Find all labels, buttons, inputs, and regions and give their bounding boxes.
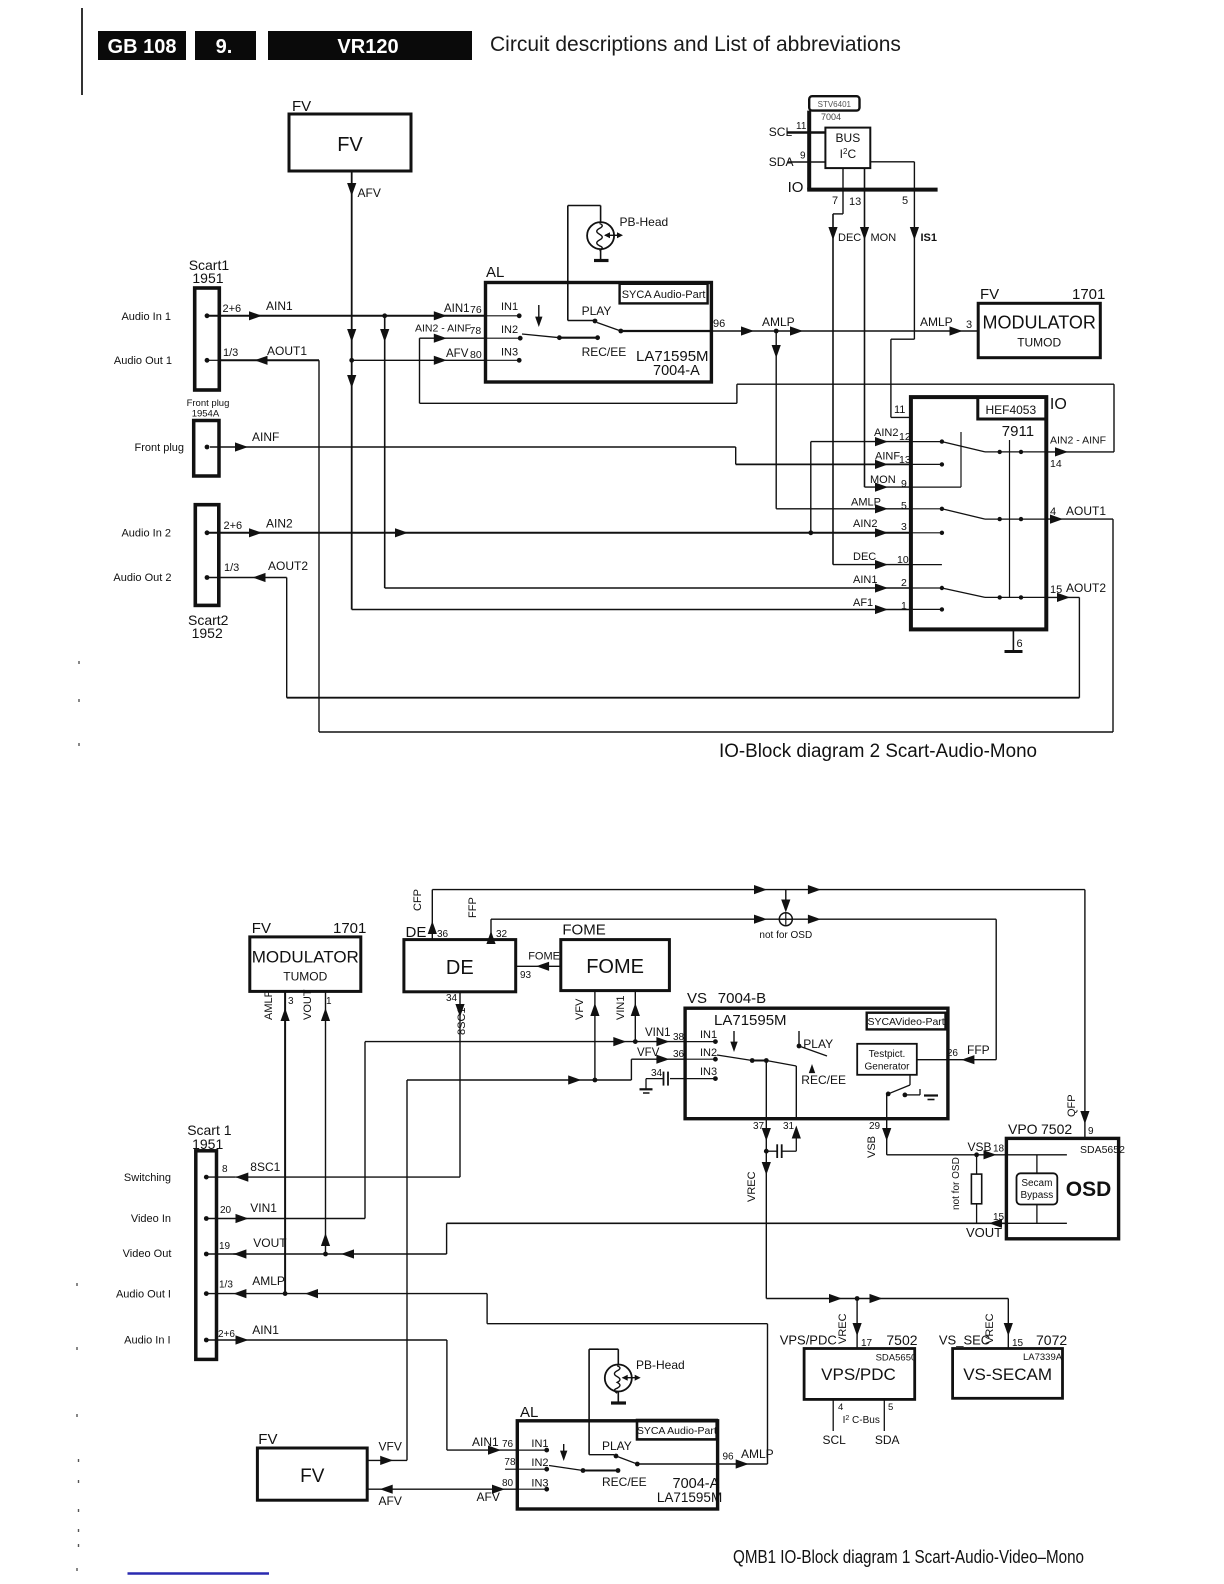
svg-text:3: 3 [288, 996, 294, 1007]
svg-text:4: 4 [838, 1402, 843, 1413]
svg-text:AMLP: AMLP [762, 315, 795, 329]
svg-text:38: 38 [673, 1032, 685, 1043]
svg-text:PB-Head: PB-Head [620, 215, 669, 229]
svg-text:AMLP: AMLP [920, 315, 953, 329]
svg-text:AIN1: AIN1 [472, 1435, 499, 1449]
svg-text:SYCA Audio-Part: SYCA Audio-Part [637, 1425, 717, 1437]
svg-text:Front plug: Front plug [187, 398, 230, 409]
svg-text:Video Out: Video Out [123, 1248, 172, 1260]
svg-text:Audio Out 1: Audio Out 1 [114, 355, 172, 367]
svg-text:34: 34 [446, 993, 458, 1004]
svg-text:Front plug: Front plug [134, 442, 184, 454]
svg-text:IN1: IN1 [700, 1029, 717, 1041]
svg-text:IO-Block diagram 2 Scart-Audio: IO-Block diagram 2 Scart-Audio-Mono [719, 741, 1037, 762]
svg-text:VS_SEC: VS_SEC [939, 1333, 990, 1348]
svg-text:31: 31 [783, 1121, 795, 1132]
svg-text:VPO: VPO [1008, 1121, 1038, 1137]
svg-text:VSB: VSB [866, 1136, 878, 1158]
svg-text:MON: MON [871, 232, 897, 244]
svg-text:SDA5650: SDA5650 [876, 1353, 917, 1364]
svg-text:5: 5 [901, 500, 907, 512]
svg-text:MODULATOR: MODULATOR [252, 948, 359, 967]
svg-text:REC/EE: REC/EE [602, 1475, 647, 1489]
svg-text:Circuit descriptions and List: Circuit descriptions and List of abbrevi… [490, 33, 901, 56]
svg-text:AIN2 - AINF: AIN2 - AINF [415, 323, 471, 335]
svg-text:HEF4053: HEF4053 [985, 403, 1036, 417]
svg-text:1951: 1951 [192, 1136, 223, 1152]
svg-text:8SC1: 8SC1 [250, 1160, 280, 1174]
svg-text:DEC: DEC [838, 232, 861, 244]
svg-text:FV: FV [292, 98, 311, 115]
svg-text:VR120: VR120 [337, 36, 398, 58]
svg-text:1951: 1951 [192, 270, 223, 286]
svg-text:Audio In I: Audio In I [124, 1335, 170, 1347]
svg-text:29: 29 [869, 1121, 881, 1132]
svg-text:9: 9 [800, 151, 806, 162]
svg-text:2+6: 2+6 [218, 1329, 235, 1340]
svg-text:AIN1: AIN1 [853, 574, 877, 586]
svg-text:13: 13 [899, 454, 911, 466]
svg-text:FV: FV [300, 1466, 325, 1487]
svg-text:Audio In 1: Audio In 1 [121, 311, 171, 323]
svg-text:1954A: 1954A [192, 409, 220, 420]
svg-text:AMLP: AMLP [263, 990, 275, 1020]
svg-text:AOUT2: AOUT2 [1066, 581, 1106, 595]
svg-text:AFV: AFV [477, 1490, 500, 1504]
svg-text:76: 76 [470, 304, 482, 316]
svg-text:8SC1: 8SC1 [456, 1007, 468, 1035]
svg-text:VIN1: VIN1 [615, 996, 627, 1020]
svg-text:VFV: VFV [574, 998, 586, 1020]
svg-text:5: 5 [902, 195, 908, 207]
svg-text:7502: 7502 [1041, 1121, 1072, 1137]
svg-text:FV: FV [252, 920, 271, 937]
svg-text:FV: FV [258, 1431, 277, 1448]
svg-text:MODULATOR: MODULATOR [983, 313, 1096, 333]
svg-text:PLAY: PLAY [582, 304, 612, 318]
svg-text:8: 8 [222, 1164, 228, 1175]
svg-text:VFV: VFV [379, 1440, 402, 1454]
svg-text:11: 11 [894, 404, 905, 416]
svg-text:VOUT: VOUT [302, 989, 314, 1020]
svg-text:Audio Out 2: Audio Out 2 [113, 572, 171, 584]
svg-text:1/3: 1/3 [224, 562, 239, 574]
svg-text:15: 15 [993, 1212, 1005, 1223]
svg-text:AOUT1: AOUT1 [267, 344, 307, 358]
svg-text:FV: FV [337, 134, 363, 156]
svg-text:AIN1: AIN1 [252, 1323, 279, 1337]
svg-text:1952: 1952 [192, 625, 223, 641]
svg-text:IS1: IS1 [921, 232, 938, 244]
svg-text:10: 10 [897, 554, 909, 566]
svg-text:2+6: 2+6 [223, 303, 242, 315]
svg-text:VSB: VSB [968, 1140, 992, 1154]
svg-text:REC/EE: REC/EE [801, 1073, 846, 1087]
svg-text:7: 7 [832, 195, 838, 207]
svg-text:7004: 7004 [821, 112, 841, 122]
svg-text:1701: 1701 [333, 920, 366, 937]
svg-text:FFP: FFP [467, 897, 479, 918]
svg-text:1701: 1701 [1072, 286, 1105, 303]
svg-text:AFV: AFV [446, 348, 469, 360]
svg-text:AIN2: AIN2 [853, 518, 877, 530]
svg-text:2: 2 [901, 577, 907, 589]
svg-text:VREC: VREC [746, 1171, 758, 1202]
svg-text:DEC: DEC [853, 551, 876, 563]
svg-text:96: 96 [713, 318, 725, 330]
svg-text:9: 9 [1088, 1126, 1094, 1137]
svg-text:1: 1 [326, 996, 332, 1007]
svg-text:Secam: Secam [1021, 1178, 1052, 1189]
svg-text:78: 78 [470, 325, 482, 337]
svg-text:93: 93 [520, 970, 532, 981]
svg-text:DE: DE [446, 957, 474, 979]
svg-text:AINF: AINF [252, 430, 279, 444]
svg-text:14: 14 [1050, 458, 1062, 470]
svg-text:AF1: AF1 [853, 597, 873, 609]
svg-text:IN3: IN3 [501, 347, 518, 359]
svg-text:CFP: CFP [412, 889, 424, 911]
svg-text:SYCAVideo-Part: SYCAVideo-Part [867, 1016, 944, 1028]
svg-text:PLAY: PLAY [602, 1439, 632, 1453]
svg-text:20: 20 [220, 1205, 232, 1216]
svg-text:3: 3 [966, 319, 972, 331]
svg-text:7911: 7911 [1002, 423, 1034, 440]
svg-text:FOME: FOME [528, 951, 560, 963]
svg-text:VIN1: VIN1 [645, 1027, 671, 1039]
svg-text:11: 11 [796, 121, 807, 132]
svg-text:not for OSD: not for OSD [951, 1157, 962, 1210]
svg-text:QMB1 IO-Block diagram 1 Scart-: QMB1 IO-Block diagram 1 Scart-Audio-Vide… [733, 1546, 1084, 1567]
svg-text:VPS/PDC: VPS/PDC [821, 1365, 896, 1384]
svg-text:SCL: SCL [823, 1433, 847, 1447]
svg-text:AIN2: AIN2 [874, 427, 898, 439]
svg-text:1/3: 1/3 [219, 1280, 233, 1291]
svg-text:78: 78 [504, 1457, 516, 1468]
svg-text:SDA: SDA [875, 1433, 900, 1447]
svg-text:5: 5 [888, 1402, 893, 1413]
svg-text:2+6: 2+6 [224, 520, 243, 532]
svg-text:VS-SECAM: VS-SECAM [963, 1365, 1052, 1384]
svg-text:AINF: AINF [875, 451, 900, 463]
svg-text:IO: IO [1050, 396, 1067, 413]
svg-text:SDA5652: SDA5652 [1080, 1144, 1125, 1156]
svg-text:7004-A: 7004-A [653, 363, 700, 379]
svg-text:TUMOD: TUMOD [283, 970, 327, 984]
svg-text:LA71595M: LA71595M [714, 1012, 787, 1029]
svg-text:80: 80 [502, 1478, 514, 1489]
svg-text:AOUT2: AOUT2 [268, 559, 308, 573]
svg-text:7072: 7072 [1036, 1332, 1067, 1348]
svg-text:AFV: AFV [379, 1494, 402, 1508]
svg-text:76: 76 [502, 1439, 514, 1450]
svg-text:IO: IO [788, 179, 804, 196]
svg-text:AMLP: AMLP [252, 1274, 285, 1288]
svg-text:1: 1 [901, 600, 907, 612]
svg-text:SYCA Audio-Part: SYCA Audio-Part [622, 289, 706, 301]
svg-text:VFV: VFV [637, 1047, 660, 1059]
svg-text:LA7339A: LA7339A [1023, 1352, 1063, 1363]
svg-text:AMLP: AMLP [851, 497, 881, 509]
svg-text:96: 96 [723, 1452, 735, 1463]
svg-text:Switching: Switching [124, 1172, 171, 1184]
svg-text:AL: AL [486, 264, 504, 281]
svg-text:IN3: IN3 [700, 1066, 717, 1078]
svg-text:Audio In 2: Audio In 2 [121, 528, 171, 540]
svg-text:AFV: AFV [358, 186, 381, 200]
svg-text:VIN1: VIN1 [250, 1201, 277, 1215]
svg-text:80: 80 [470, 349, 482, 361]
svg-text:AIN1: AIN1 [444, 303, 470, 315]
svg-text:VOUT: VOUT [966, 1225, 1002, 1240]
svg-text:LA71595M: LA71595M [657, 1490, 722, 1505]
svg-text:Audio Out I: Audio Out I [116, 1289, 171, 1301]
svg-text:PB-Head: PB-Head [636, 1358, 685, 1372]
svg-text:VOUT: VOUT [253, 1236, 287, 1250]
svg-text:AMLP: AMLP [741, 1447, 774, 1461]
svg-text:FFP: FFP [967, 1043, 990, 1057]
svg-text:9: 9 [901, 478, 907, 490]
svg-text:AIN2 - AINF: AIN2 - AINF [1050, 435, 1106, 447]
svg-text:DE: DE [406, 924, 427, 941]
svg-text:12: 12 [899, 431, 911, 443]
svg-text:1/3: 1/3 [223, 347, 238, 359]
svg-text:TUMOD: TUMOD [1017, 336, 1061, 350]
svg-text:Generator: Generator [864, 1062, 910, 1073]
svg-text:AL: AL [520, 1404, 538, 1421]
svg-text:FOME: FOME [586, 956, 644, 978]
svg-text:VS: VS [687, 990, 707, 1007]
svg-text:7502: 7502 [886, 1332, 917, 1348]
svg-text:IN1: IN1 [501, 301, 518, 313]
svg-text:6: 6 [1017, 638, 1023, 650]
svg-text:FV: FV [980, 286, 999, 303]
svg-text:STV6401: STV6401 [818, 100, 852, 109]
svg-text:VPS/PDC: VPS/PDC [780, 1333, 837, 1348]
svg-text:VREC: VREC [837, 1313, 849, 1344]
svg-text:OSD: OSD [1066, 1178, 1112, 1201]
svg-text:FOME: FOME [562, 922, 605, 939]
svg-text:13: 13 [849, 196, 861, 208]
svg-text:not for OSD: not for OSD [759, 930, 812, 941]
svg-text:BUS: BUS [836, 131, 861, 145]
svg-text:19: 19 [219, 1241, 231, 1252]
svg-text:3: 3 [901, 521, 907, 533]
svg-text:7004-B: 7004-B [718, 990, 766, 1007]
svg-text:AOUT1: AOUT1 [1066, 504, 1106, 518]
svg-text:34: 34 [651, 1068, 663, 1079]
svg-text:Video In: Video In [131, 1213, 171, 1225]
svg-text:Testpict.: Testpict. [869, 1049, 906, 1060]
svg-text:9.: 9. [216, 36, 233, 58]
svg-text:AIN2: AIN2 [266, 517, 293, 531]
svg-text:AIN1: AIN1 [266, 299, 293, 313]
svg-text:Bypass: Bypass [1021, 1190, 1054, 1201]
svg-text:QFP: QFP [1066, 1094, 1078, 1117]
svg-text:GB 108: GB 108 [108, 36, 177, 58]
svg-text:MON: MON [870, 474, 896, 486]
svg-text:18: 18 [993, 1144, 1005, 1155]
svg-text:IN2: IN2 [501, 324, 518, 336]
svg-text:REC/EE: REC/EE [582, 345, 627, 359]
svg-text:36: 36 [673, 1049, 685, 1060]
svg-text:I2C: I2C [840, 147, 857, 161]
